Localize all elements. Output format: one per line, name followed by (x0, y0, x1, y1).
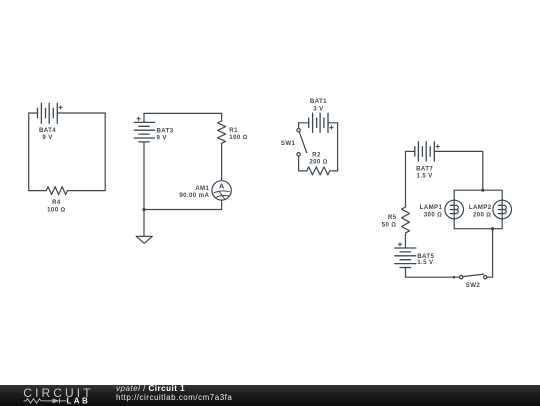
svg-text:1.5 V: 1.5 V (417, 259, 434, 266)
svg-text:R1: R1 (229, 127, 238, 134)
svg-text:9 V: 9 V (42, 134, 53, 141)
svg-text:200 Ω: 200 Ω (309, 158, 328, 165)
svg-text:BAT7: BAT7 (416, 165, 433, 172)
svg-text:1.5 V: 1.5 V (416, 173, 433, 180)
svg-text:AM1: AM1 (195, 185, 209, 192)
svg-text:100 Ω: 100 Ω (47, 206, 66, 213)
svg-text:LAMP1: LAMP1 (420, 204, 443, 211)
svg-text:50 Ω: 50 Ω (382, 222, 397, 229)
svg-text:A: A (219, 182, 225, 191)
svg-text:3 V: 3 V (313, 106, 324, 113)
svg-text:R2: R2 (312, 151, 321, 158)
svg-text:R5: R5 (388, 214, 397, 221)
svg-text:SW1: SW1 (281, 140, 296, 147)
svg-text:BAT1: BAT1 (310, 98, 327, 105)
svg-text:90.00 mA: 90.00 mA (179, 192, 209, 199)
svg-text:100 Ω: 100 Ω (229, 134, 248, 141)
svg-text:9 V: 9 V (157, 134, 168, 141)
svg-text:300 Ω: 300 Ω (424, 211, 443, 218)
svg-text:LAB: LAB (67, 396, 91, 405)
svg-text:200 Ω: 200 Ω (473, 211, 492, 218)
svg-text:SW2: SW2 (466, 282, 481, 289)
svg-text:LAMP2: LAMP2 (469, 204, 492, 211)
svg-text:R4: R4 (52, 199, 61, 206)
